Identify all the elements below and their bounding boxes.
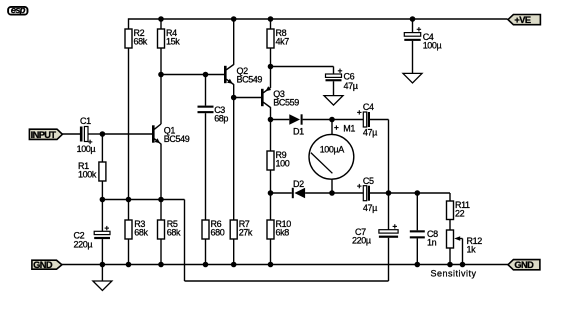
svg-text:4k7: 4k7 (276, 37, 290, 47)
meter M1 label (334, 123, 355, 133)
svg-text:M1: M1 (343, 123, 355, 133)
svg-text:GND: GND (33, 260, 53, 270)
wire meter bottom lead (331, 179, 333, 193)
label Sensitivity (431, 268, 477, 278)
junction R4 top on +VE rail (158, 16, 164, 22)
wire C8 bottom to ground rail (416, 238, 418, 264)
junction meter - / C5 (329, 190, 335, 196)
ground below C4 (403, 73, 422, 83)
junction meter + / C4 (329, 117, 335, 123)
svg-text:6k8: 6k8 (276, 228, 290, 238)
ground symbol main (93, 281, 112, 291)
wire R9/R10 node to D2 (271, 192, 292, 194)
junction R9 / D2 / R10 (268, 190, 274, 196)
transistor Q2 BC549 (225, 65, 262, 85)
junction Q1 emitter / R5 / bias wire (158, 197, 164, 203)
capacitor C4 100µ (supply) (404, 27, 441, 51)
wire meter top to C4 (332, 119, 363, 121)
svg-text:GND: GND (514, 260, 534, 270)
junction R3 on ground rail (126, 262, 132, 268)
diode D2 (292, 179, 305, 198)
resistor R11 22 (447, 200, 471, 220)
resistor R2 68k (125, 28, 148, 48)
svg-text:esp: esp (11, 5, 26, 16)
port tag INPUT (29, 129, 62, 140)
svg-text:22: 22 (455, 209, 465, 219)
svg-text:INPUT: INPUT (31, 130, 57, 140)
wire C2 bottom to ground rail (101, 239, 103, 264)
wire C7 bottom crossing ground rail to bias run (388, 238, 390, 281)
potentiometer R12 wiper (454, 236, 462, 264)
svg-text:100µ: 100µ (423, 41, 442, 51)
junction R12 wiper on ground rail (460, 262, 466, 268)
capacitor C1 100µ (77, 116, 96, 154)
svg-text:47µ: 47µ (363, 203, 377, 213)
wire C3 top lead (205, 75, 207, 106)
wire Q3 emitter node to C6 (271, 66, 334, 68)
wire R4 top (160, 19, 162, 29)
junction R1 / C2 / bias wire (100, 197, 106, 203)
svg-text:D2: D2 (293, 179, 304, 189)
wire C5 node corner to R11 (449, 193, 451, 201)
resistor R10 6k8 (267, 219, 291, 239)
svg-text:68k: 68k (134, 37, 148, 47)
svg-text:C4: C4 (363, 102, 374, 112)
junction R8 / Q3 emitter / C6 (268, 64, 274, 70)
wire R11 to R12 (449, 220, 451, 231)
wire C4 bottom lead to ground (412, 41, 414, 74)
wire bias node horizontal (102, 199, 184, 201)
wire Q2 base node down to Q1 collector (160, 75, 162, 125)
svg-text:C6: C6 (344, 72, 355, 82)
junction C4 on +VE rail (410, 16, 416, 22)
wire R7 bottom to ground rail (233, 239, 235, 265)
ESP logo (8, 5, 27, 16)
wire R6 bottom to ground rail (205, 239, 207, 265)
resistor R8 4k7 (267, 28, 289, 48)
wire ground rail stub to ground symbol (101, 265, 103, 282)
svg-text:BC559: BC559 (273, 97, 299, 107)
svg-text:C1: C1 (80, 116, 91, 126)
svg-text:C5: C5 (363, 176, 374, 186)
wire bias corner down (184, 200, 186, 282)
wire R8 top (270, 19, 272, 29)
wire C1 to Q1 base node (88, 133, 102, 135)
wire Q2 collector up to +VE rail (233, 19, 235, 65)
svg-text:100k: 100k (78, 170, 97, 180)
wire ground rail (62, 264, 508, 266)
resistor R5 68k (158, 219, 182, 239)
svg-text:D1: D1 (293, 126, 304, 136)
svg-text:47µ: 47µ (363, 127, 377, 137)
resistor R4 15k (158, 28, 181, 48)
wire R3 top lead (128, 200, 130, 221)
svg-text:68k: 68k (167, 228, 181, 238)
svg-text:1k: 1k (467, 244, 477, 254)
wire Q1 base (102, 133, 152, 135)
wire Q2 emitter down to Q3 base node (233, 84, 235, 97)
port tag GND (508, 260, 540, 271)
capacitor C7 220µ (352, 224, 398, 246)
junction R2/R3 on bias wire (126, 197, 132, 203)
wire R1 top lead (101, 134, 103, 162)
capacitor C2 220µ (74, 226, 111, 249)
wire C2 top lead (101, 200, 103, 232)
wire R4 bottom to Q2 base node (160, 48, 162, 75)
junction R5 on ground rail (158, 262, 164, 268)
wire Q3 collector node to D1 (271, 119, 290, 121)
wire +VE rail corner down to R2 (128, 18, 130, 29)
svg-text:Sensitivity: Sensitivity (431, 268, 477, 278)
resistor R9 100 (267, 150, 290, 170)
junction C2 on ground rail (100, 262, 106, 268)
junction R4 / Q2 base / Q1 collector (158, 72, 164, 78)
wire R10 bottom to ground rail (270, 239, 272, 265)
transistor Q1 BC549 (153, 124, 189, 144)
wire Q3 emitter up to R8 node (270, 67, 272, 88)
wire R8 bottom to Q3 emitter node (270, 48, 272, 67)
svg-text:+VE: +VE (514, 15, 530, 25)
wire R2 bottom down to bias node (128, 48, 130, 200)
wire R12 bottom to ground rail (449, 248, 451, 265)
wire R3 bottom to ground rail (128, 239, 130, 265)
svg-text:68k: 68k (134, 228, 148, 238)
transistor Q3 BC559 (262, 86, 299, 107)
junction C8 top (415, 190, 421, 196)
junction C8 on ground rail (415, 262, 421, 268)
svg-text:68p: 68p (214, 114, 228, 124)
junction R6 on ground rail (203, 262, 209, 268)
resistor R7 27k (230, 219, 253, 239)
wire D1 to meter top (303, 119, 332, 121)
wire D2 to meter bottom (305, 192, 332, 194)
wire R5 top lead (160, 200, 162, 221)
junction R10 on ground rail (268, 262, 274, 268)
junction Q3 collector / D1 anode / R9 (268, 117, 274, 123)
wire C8 top lead (416, 193, 418, 230)
diode D1 (289, 114, 304, 136)
port tag +VE (508, 15, 540, 26)
svg-text:100µ: 100µ (77, 144, 96, 154)
wire C5 to C7 node (370, 192, 450, 194)
capacitor C5 47µ (357, 176, 377, 213)
svg-text:100µA: 100µA (320, 145, 345, 155)
junction C1 / R1 / Q1 base (100, 131, 106, 137)
svg-text:BC549: BC549 (237, 74, 263, 84)
resistor R1 100k (78, 161, 106, 181)
wire Q1 emitter down to bias node (160, 144, 162, 200)
wire C6 top lead (333, 67, 335, 75)
wire C7 top lead (388, 193, 390, 230)
capacitor C3 68p (198, 105, 229, 124)
wire meter bottom to C5 (332, 192, 363, 194)
svg-text:220µ: 220µ (74, 239, 93, 249)
capacitor C4 47µ (meter) (357, 102, 377, 137)
wire Q3 collector down to D1 node (270, 107, 272, 119)
svg-text:27k: 27k (239, 228, 253, 238)
wire Q2 base (161, 74, 224, 76)
wire right column C4-C5 (388, 120, 390, 194)
wire bias bottom run to C7 (185, 280, 389, 282)
wire +VE supply rail (129, 18, 508, 20)
svg-text:220µ: 220µ (352, 236, 371, 246)
ground below C6 (324, 96, 343, 106)
meter M1 100µA (309, 134, 354, 179)
junction R7 on ground rail (231, 262, 237, 268)
svg-text:BC549: BC549 (164, 134, 190, 144)
wire R1 bottom to bias node (101, 181, 103, 200)
svg-text:15k: 15k (166, 37, 180, 47)
svg-text:100: 100 (276, 159, 290, 169)
junction R12 on ground rail (447, 262, 453, 268)
junction R8 top on +VE rail (268, 16, 274, 22)
wire INPUT to C1 (62, 133, 80, 135)
wire C6 bottom lead to ground (333, 81, 335, 95)
wire meter top lead (331, 120, 333, 135)
capacitor C6 47µ (326, 69, 358, 92)
junction Q2 collector on +VE rail (231, 16, 237, 22)
junction Q2 emitter / Q3 base / R7 (231, 95, 237, 101)
wire C4 top lead (412, 19, 414, 33)
resistor R3 68k (125, 219, 149, 239)
wire R9 bottom to D2 node (270, 170, 272, 193)
wire C3 bottom to R6 (205, 113, 207, 220)
svg-text:47µ: 47µ (344, 81, 358, 91)
wire D2 node down to R10 (270, 193, 272, 220)
wire C4 to right column (370, 119, 389, 121)
junction C3 top on Q2 base wire (203, 72, 209, 78)
wire Q3 base (234, 97, 262, 99)
svg-text:1n: 1n (427, 238, 437, 248)
resistor R6 680 (202, 219, 225, 239)
wire Q2 emitter node down to R7 (233, 98, 235, 221)
wire D1 node down to R9 (270, 120, 272, 152)
port tag GND (32, 260, 62, 270)
capacitor C8 1n (410, 229, 438, 248)
resistor R12 1k (447, 230, 483, 254)
junction C5 / C7 / right column (386, 190, 392, 196)
svg-text:680: 680 (211, 228, 225, 238)
wire R5 bottom to ground rail (160, 239, 162, 265)
